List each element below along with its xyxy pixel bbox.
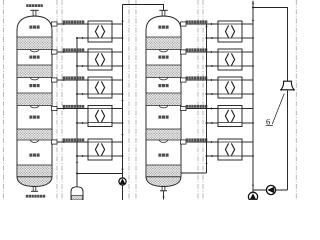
wire E12 upper outlet to riser: [112, 51, 123, 53]
column C2 packing band 4: [146, 129, 181, 140]
wire E25 upper outlet to vent bus: [242, 141, 253, 143]
centerline boundary b2: [135, 0, 137, 200]
column C2 section label 4: [158, 116, 168, 119]
column C1 section label 4: [29, 116, 39, 119]
column C2 vapor nozzle 4: [181, 106, 187, 110]
wire vapor line column C1 effect 5 to E15: [58, 141, 89, 143]
wire condensate bus stub to E23: [206, 93, 219, 95]
wire vapor line column C2 effect 5 to E25: [187, 141, 219, 143]
wire E14 upper outlet to riser: [112, 108, 123, 110]
wire E23 lower crossing to vent bus: [242, 93, 254, 95]
column C2 packing band 1: [146, 37, 181, 50]
circulation riser left train: [121, 5, 123, 201]
evaporator column C2 shell: [146, 16, 181, 177]
wire vapor line column C1 effect 3 to E13: [58, 79, 89, 81]
column C1 tray notch 3: [30, 78, 38, 80]
wire condenser leg bottom to pump P2: [253, 189, 288, 191]
wire vent bus to condenser branch: [252, 7, 288, 82]
label 6: [266, 116, 273, 126]
wire vapor line column C2 effect 2 to E22: [187, 51, 219, 53]
centerline right boundary: [295, 0, 297, 200]
column C1 section label 3: [29, 84, 39, 87]
heat exchanger E12: [88, 49, 112, 70]
wire condensate bus stub to E15: [76, 155, 88, 157]
column C2 packing band 5: [146, 165, 181, 177]
wire vapor line column C2 effect 1 to E21: [187, 23, 219, 25]
wire condensate bus to pump P1: [76, 173, 123, 175]
vapor label effect 3 right train: [186, 76, 208, 79]
wire E25 lower crossing to vent bus: [242, 155, 254, 157]
wire E11 upper outlet to riser: [112, 23, 123, 25]
column C2 tray notch 5: [159, 140, 167, 142]
vapor label effect 4 right train: [186, 105, 208, 108]
heat exchanger E13: [88, 77, 112, 98]
vapor label effect 2 right train: [186, 48, 208, 51]
vapor label effect 4 left train: [63, 105, 85, 108]
wire E24 upper outlet to vent bus: [242, 108, 253, 110]
condensate receiver drum V1: [71, 187, 83, 200]
condensate bus left train: [76, 38, 78, 187]
centerline left boundary: [3, 0, 5, 200]
wire condensate bus stub to E24: [206, 122, 219, 124]
barometric condenser leg: [287, 91, 289, 191]
heat exchanger E24: [218, 106, 242, 127]
column C1 tray notch 2: [30, 50, 38, 52]
column C1 bottom outlet nozzle: [31, 187, 38, 192]
svg-text:6: 6: [266, 116, 270, 126]
column C1 section label 2: [29, 56, 39, 59]
vapor label effect 5 right train: [186, 138, 208, 141]
column C2 section label 3: [158, 84, 168, 87]
column C2 tray notch 3: [159, 78, 167, 80]
heat exchanger E23: [218, 77, 242, 98]
wire condensate bus stub to E13: [76, 93, 88, 95]
column C1 packing band 4: [17, 129, 52, 140]
column C2 section label 2: [158, 56, 168, 59]
column C2 section label 1: [158, 26, 168, 29]
column C2 packing band 3: [146, 93, 181, 106]
wire E11 lower crossing: [112, 37, 123, 39]
column C1 vapor nozzle 2: [52, 50, 58, 54]
column C1 section label 1: [29, 26, 39, 29]
column C1 tray notch 5: [30, 140, 38, 142]
column C1 bottom outlet label: [26, 195, 46, 198]
column C2 tray notch 2: [159, 50, 167, 52]
wire condensate bus stub to E21: [206, 37, 219, 39]
column C1 vapor nozzle 5: [52, 140, 58, 144]
wire E15 lower crossing: [112, 155, 123, 157]
wire riser to column C2 top: [123, 5, 164, 11]
wire vapor line column C2 effect 3 to E23: [187, 79, 219, 81]
heat exchanger E15: [88, 139, 112, 160]
heat exchanger E25: [218, 139, 242, 160]
column C1 packing band 1: [17, 37, 52, 50]
wire E13 lower crossing: [112, 93, 123, 95]
wire E12 lower crossing: [112, 65, 123, 67]
wire vapor line column C1 effect 2 to E12: [58, 51, 89, 53]
heat exchanger E14: [88, 106, 112, 127]
column C2 tray notch 4: [159, 106, 167, 108]
wire E23 upper outlet to vent bus: [242, 79, 253, 81]
wire E21 upper outlet to vent bus: [242, 23, 253, 25]
wire E13 upper outlet to riser: [112, 79, 123, 81]
wire vapor line column C1 effect 4 to E14: [58, 107, 89, 109]
column C1 vapor nozzle 4: [52, 106, 58, 110]
wire E24 lower crossing to vent bus: [242, 122, 254, 124]
wire E22 upper outlet to vent bus: [242, 51, 253, 53]
wire E22 lower crossing to vent bus: [242, 65, 254, 67]
column C2 top nozzle: [159, 10, 167, 16]
vapor label effect 5 left train: [63, 138, 85, 141]
column C1 vapor nozzle 1: [52, 22, 58, 26]
column C1 packing band 3: [17, 93, 52, 106]
heat exchanger E22: [218, 49, 242, 70]
column C2 vapor nozzle 5: [181, 140, 187, 144]
wire E15 upper outlet to riser: [112, 141, 123, 143]
evaporator column C1 shell: [17, 16, 52, 177]
column C1 top nozzle: [30, 10, 38, 16]
column C1 vapor nozzle 3: [52, 78, 58, 82]
heat exchanger E21: [218, 21, 242, 42]
pump P1: [119, 178, 126, 185]
vapor vent bus right train: [252, 1, 254, 200]
column C2 vapor nozzle 2: [181, 50, 187, 54]
column C2 packing band 2: [146, 65, 181, 78]
pump P2: [266, 185, 275, 194]
centerline boundary a1: [56, 0, 58, 200]
centerline boundary b1: [128, 0, 130, 200]
wire condensate bus stub to E14: [76, 122, 88, 124]
centerline boundary a2: [61, 0, 63, 200]
vapor label effect 3 left train: [63, 76, 85, 79]
column C1 bottom head: [17, 177, 52, 187]
column C2 vapor nozzle 1: [181, 22, 187, 26]
column C2 section label 5: [158, 154, 168, 157]
centerline boundary c2: [202, 0, 204, 200]
condensate bus right train: [205, 24, 207, 173]
pump P3: [248, 192, 257, 201]
wire vapor line column C1 effect 1 to E11: [58, 23, 89, 25]
column C1 packing band 5: [17, 165, 52, 177]
vapor label effect 2 left train: [63, 48, 85, 51]
wire condensate bus stub to E22: [206, 65, 219, 67]
wire condensate bus right to column C2 bottom: [181, 172, 207, 174]
heat exchanger E11: [88, 21, 112, 42]
wire E14 lower crossing: [112, 122, 123, 124]
wire vapor line column C2 effect 4 to E24: [187, 107, 219, 109]
column C2 vapor nozzle 3: [181, 78, 187, 82]
column C1 packing band 2: [17, 65, 52, 78]
vapor label effect 1 left train: [63, 20, 85, 23]
vapor label effect 1 right train: [186, 20, 208, 23]
wire E21 lower crossing to vent bus: [242, 37, 254, 39]
column C2 bottom head: [146, 177, 181, 187]
column C1 tray notch 4: [30, 106, 38, 108]
column C1 section label 5: [29, 154, 39, 157]
column C2 bottom outlet nozzle: [160, 187, 167, 200]
leader line item 6: [272, 94, 284, 125]
column C1 feed inlet label: [26, 4, 43, 7]
wire condensate bus stub to E25: [206, 155, 219, 157]
wire condensate bus stub to E12: [76, 65, 88, 67]
condenser bell 6: [280, 81, 294, 91]
centerline boundary c1: [197, 0, 199, 200]
wire condensate bus stub to E11: [76, 37, 88, 39]
